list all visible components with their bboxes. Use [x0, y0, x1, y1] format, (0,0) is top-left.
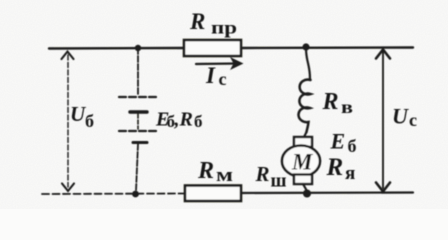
resistor R_m box — [185, 186, 241, 202]
junction node top of battery branch — [135, 45, 141, 51]
motor M brush terminal top — [294, 137, 312, 147]
svg-text:б: б — [85, 111, 94, 131]
wire battery branch upper — [137, 48, 139, 95]
svg-text:с: с — [409, 110, 417, 130]
svg-text:Е: Е — [330, 129, 346, 154]
wire between battery cells — [137, 114, 139, 129]
svg-text:R: R — [197, 158, 214, 184]
junction node bottom of battery branch — [132, 191, 139, 198]
wire battery branch lower — [136, 144, 138, 191]
svg-text:ш: ш — [271, 171, 287, 192]
svg-text:R: R — [326, 154, 344, 181]
label R_pr — [189, 9, 237, 38]
battery E_b plate long 2 — [119, 130, 157, 132]
label I_c — [205, 63, 227, 89]
svg-text:R: R — [255, 162, 270, 186]
wire bottom bus middle segment — [241, 191, 413, 194]
battery E_b plate short 2 — [133, 141, 147, 144]
battery E_b plate short 1 — [130, 110, 147, 113]
label E_b,R_b — [155, 109, 203, 132]
svg-text:R: R — [189, 9, 205, 34]
resistor R_pr box — [184, 40, 241, 56]
wire top bus left segment — [49, 47, 184, 50]
svg-text:я: я — [345, 163, 355, 184]
label R_sh — [255, 162, 287, 192]
voltage arrow U_b (left measurement line) — [62, 52, 75, 192]
voltage arrow U_c (right measurement line) — [376, 50, 390, 192]
label R_v — [322, 89, 354, 117]
svg-text:б: б — [348, 136, 357, 156]
junction node top of motor branch — [302, 43, 309, 50]
battery E_b plate long 1 — [119, 96, 157, 98]
motor M body — [282, 146, 320, 177]
label E_b motor — [330, 129, 357, 157]
current arrow I_c — [196, 57, 244, 70]
inductor R_v coil — [299, 80, 311, 132]
svg-text:в: в — [341, 97, 353, 117]
svg-text:пр: пр — [211, 18, 237, 38]
junction node bottom of motor branch — [303, 190, 311, 198]
svg-text:М: М — [291, 150, 314, 175]
wire motor to bottom bus — [303, 184, 307, 191]
wire top bus right segment — [241, 46, 413, 49]
motor M brush terminal bottom — [294, 175, 312, 185]
wire motor branch upper — [306, 48, 310, 79]
svg-text:I: I — [205, 63, 216, 88]
svg-text:м: м — [216, 165, 233, 186]
svg-text:с: с — [219, 69, 227, 89]
svg-text:U: U — [392, 104, 409, 129]
svg-text:R: R — [322, 89, 339, 115]
label U_c — [392, 104, 417, 131]
svg-text:б: б — [194, 112, 203, 131]
wire bottom bus left segment — [42, 193, 185, 196]
label R_m — [197, 158, 233, 186]
wire coil to motor — [304, 132, 307, 137]
svg-text:,R: ,R — [174, 109, 193, 131]
label R_ya — [326, 154, 356, 184]
label U_b — [70, 102, 94, 131]
